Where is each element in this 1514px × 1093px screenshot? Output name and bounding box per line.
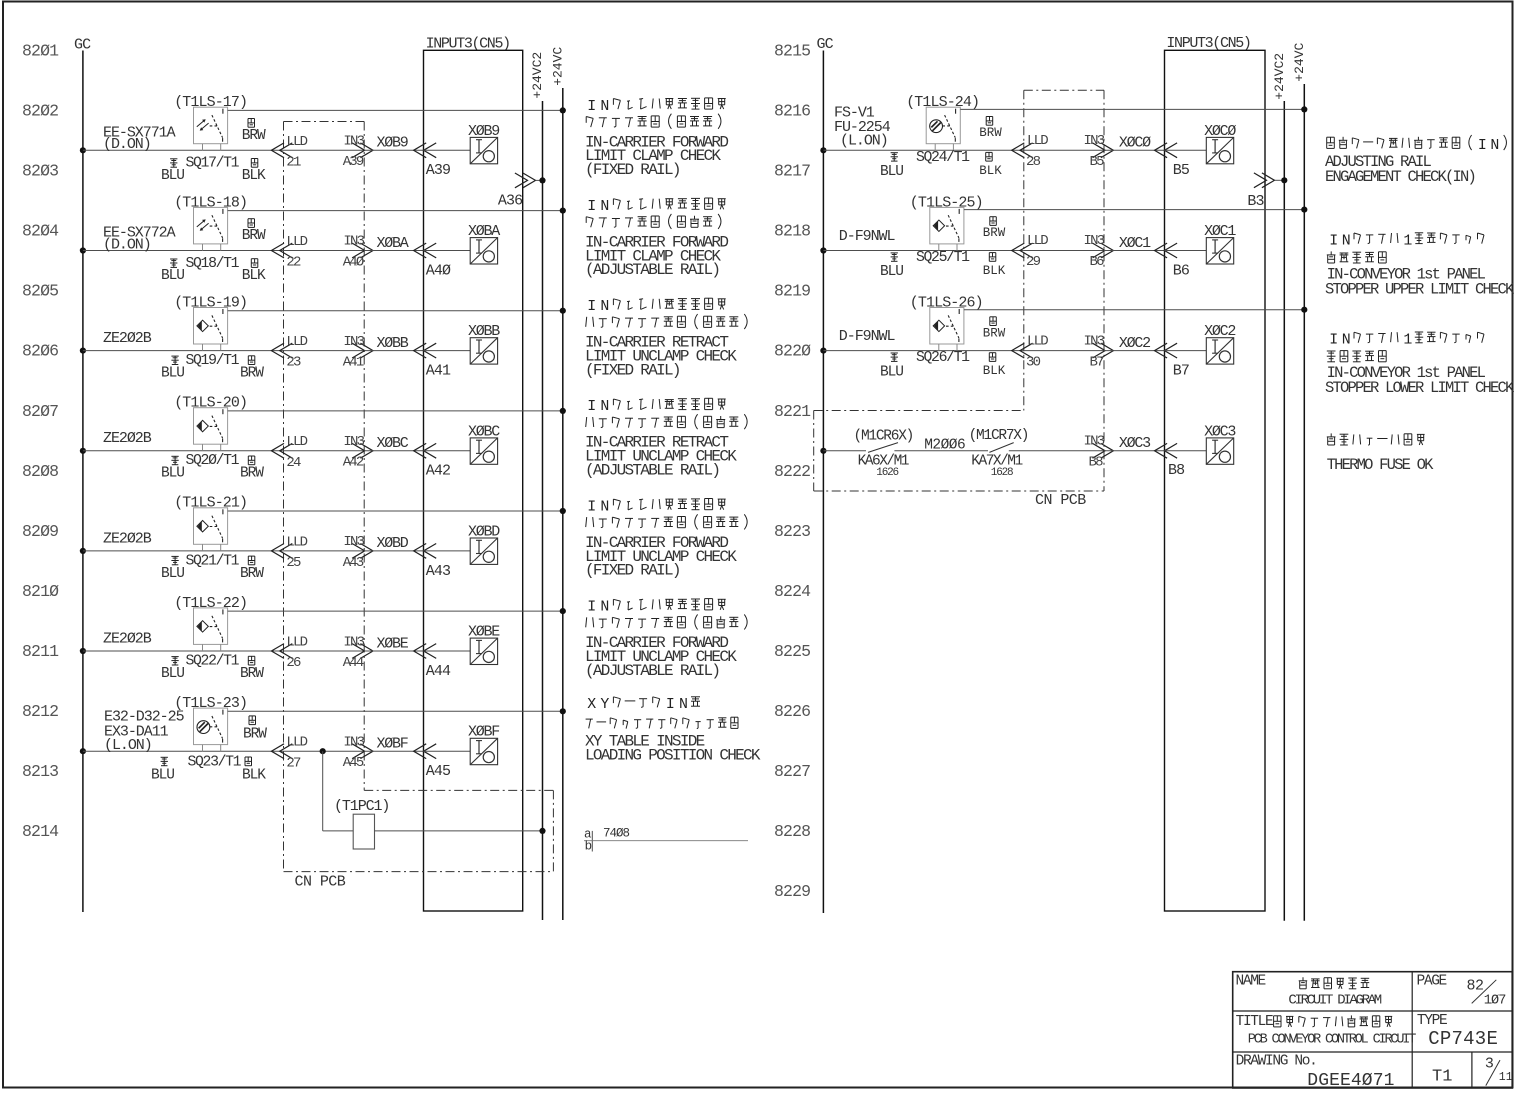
- wire GC right bus: [822, 51, 824, 914]
- svg-text:24: 24: [286, 455, 301, 471]
- svg-text:BRW: BRW: [243, 726, 267, 742]
- pin B7 into INPUT3 right: [1155, 343, 1168, 358]
- wire sensor top to +24VC right row 1: [960, 108, 1304, 110]
- svg-text:N: N: [600, 600, 609, 616]
- node junction branch T1PC1: [320, 748, 326, 754]
- svg-text:BRW: BRW: [979, 126, 1002, 140]
- photocoupler T1PC1: [353, 814, 374, 849]
- svg-text:8226: 8226: [774, 702, 810, 721]
- svg-text:(T1LS-22): (T1LS-22): [174, 595, 247, 612]
- svg-text:8211: 8211: [22, 642, 59, 661]
- pin IN3 connector arrow: [360, 644, 373, 659]
- svg-text:SQ25/T1: SQ25/T1: [916, 250, 970, 266]
- svg-text:(T1LS-17): (T1LS-17): [174, 94, 247, 111]
- svg-text:XØBF: XØBF: [377, 736, 408, 753]
- pin LLD 28 right connector: [1012, 143, 1025, 158]
- wire to I/O symbol: [424, 650, 471, 652]
- wire net XØCØ: [1104, 149, 1165, 151]
- svg-text:A4Ø: A4Ø: [426, 262, 451, 279]
- svg-text:BLK: BLK: [242, 168, 266, 184]
- svg-text:82Ø5: 82Ø5: [22, 282, 58, 301]
- wire sensor top to +24VC row 2: [228, 210, 563, 212]
- wire rung row 2 left: [83, 250, 284, 252]
- svg-text:SQ18/T1: SQ18/T1: [186, 256, 240, 272]
- svg-text:+24VC: +24VC: [1292, 42, 1307, 81]
- svg-text:XØBC: XØBC: [377, 435, 409, 452]
- svg-text:BLU: BLU: [161, 466, 184, 482]
- svg-text:8224: 8224: [774, 582, 811, 601]
- svg-text:B8: B8: [1168, 462, 1185, 479]
- svg-text:(L.ON): (L.ON): [104, 737, 152, 754]
- svg-text:SQ24/T1: SQ24/T1: [916, 150, 970, 166]
- svg-text:BLU: BLU: [161, 666, 184, 682]
- svg-text:ZE2Ø2B: ZE2Ø2B: [103, 631, 152, 648]
- power rail +24VC right: [1303, 84, 1305, 921]
- sensor T1LS-23: [194, 708, 228, 745]
- svg-text:(T1LS-25): (T1LS-25): [910, 194, 983, 211]
- label wire colors right: [989, 217, 991, 226]
- svg-text:I: I: [666, 697, 675, 713]
- wire rung right row 3: [823, 350, 1023, 352]
- svg-text:ENGAGEMENT CHECK(IN): ENGAGEMENT CHECK(IN): [1325, 168, 1475, 186]
- svg-text:LLD: LLD: [286, 334, 307, 350]
- svg-text:N: N: [600, 399, 609, 415]
- wire to I/O symbol: [424, 450, 471, 452]
- svg-text:XØBA: XØBA: [377, 235, 409, 252]
- label wire color blue: [170, 158, 177, 160]
- svg-text:+24VC: +24VC: [550, 47, 565, 86]
- svg-text:82Ø3: 82Ø3: [22, 162, 58, 181]
- svg-text:A44: A44: [426, 663, 451, 680]
- svg-text:+24VC2: +24VC2: [530, 52, 545, 99]
- wire to I/O symbol: [424, 250, 471, 252]
- svg-text:SQ23/T1: SQ23/T1: [188, 755, 242, 771]
- power rail +24VC2 right: [1283, 101, 1285, 921]
- svg-text:(FIXED RAIL): (FIXED RAIL): [585, 562, 680, 580]
- wire sensor top to +24VC row 4: [228, 410, 563, 412]
- svg-text:CN PCB: CN PCB: [1035, 492, 1086, 509]
- svg-text:A36: A36: [498, 193, 523, 210]
- relay contact KA7X/M1 (M1CR7X): [989, 443, 1013, 453]
- svg-text:82Ø7: 82Ø7: [22, 402, 58, 421]
- pin arrow into INPUT3: [414, 644, 427, 659]
- svg-text:(T1LS-18): (T1LS-18): [174, 194, 247, 211]
- svg-text:1628: 1628: [991, 467, 1013, 479]
- wire rung right row 4 segment 1: [823, 450, 866, 452]
- label description right row 1: [1326, 137, 1328, 148]
- svg-text:IN3: IN3: [1084, 233, 1105, 249]
- svg-text:A4Ø: A4Ø: [343, 254, 364, 270]
- svg-text:BRW: BRW: [240, 466, 264, 482]
- svg-text:BRW: BRW: [240, 566, 264, 582]
- svg-text:8215: 8215: [774, 42, 810, 61]
- svg-text:BLU: BLU: [880, 264, 903, 280]
- svg-text:BLK: BLK: [242, 768, 266, 784]
- pin arrow into INPUT3: [414, 443, 427, 458]
- title block table: [1233, 972, 1513, 1088]
- svg-text:A44: A44: [343, 655, 364, 671]
- connector INPUT3(CN5) left box: [424, 50, 523, 911]
- svg-text:THERMO FUSE OK: THERMO FUSE OK: [1327, 456, 1435, 474]
- wire net XØC3: [1104, 450, 1165, 452]
- node junction GC right row 3: [820, 348, 826, 354]
- svg-text:26: 26: [286, 655, 301, 671]
- label wire color black BLK: [250, 259, 252, 268]
- label wire color brown BRW: [248, 716, 250, 725]
- svg-text:A39: A39: [426, 162, 450, 179]
- pin jump B3 to +24VC2 right: [1262, 173, 1275, 188]
- svg-text:IN3: IN3: [343, 234, 364, 250]
- pin IN3 connector arrow: [360, 143, 373, 158]
- svg-text:X: X: [587, 697, 596, 713]
- pin IN3 B5 right connector: [1101, 143, 1114, 158]
- svg-text:(L.ON): (L.ON): [840, 133, 888, 150]
- svg-text:GC: GC: [817, 36, 834, 53]
- svg-text:8225: 8225: [774, 642, 810, 661]
- wire net XØBB: [364, 350, 423, 352]
- svg-text:A43: A43: [343, 555, 364, 571]
- label wire colors right: [989, 317, 991, 326]
- svg-text:IN3: IN3: [343, 334, 364, 350]
- svg-text:LLD: LLD: [1027, 333, 1048, 349]
- svg-text:D-F9NWL: D-F9NWL: [839, 228, 896, 245]
- wire rung row 1 left: [83, 149, 284, 151]
- svg-text:IN3: IN3: [1084, 333, 1105, 349]
- svg-text:BRW: BRW: [240, 366, 264, 382]
- svg-text:ZE2Ø2B: ZE2Ø2B: [103, 330, 152, 347]
- svg-text:A42: A42: [426, 463, 450, 480]
- wire GC left bus: [82, 51, 84, 913]
- svg-text:XØC2: XØC2: [1119, 335, 1150, 352]
- svg-text:B5: B5: [1173, 162, 1190, 179]
- svg-text:BRW: BRW: [983, 326, 1006, 340]
- svg-text:BLU: BLU: [161, 168, 184, 184]
- svg-text:8222: 8222: [774, 462, 810, 481]
- node junction +24VC row 6: [560, 608, 566, 614]
- svg-text:1: 1: [1403, 233, 1412, 249]
- pin IN3 B8 right connector row 4: [1101, 443, 1114, 458]
- svg-text:A41: A41: [343, 355, 364, 371]
- sensor T1LS-26: [930, 308, 964, 345]
- svg-text:82Ø8: 82Ø8: [22, 462, 58, 481]
- label wire color brown: [247, 456, 249, 465]
- svg-text:8218: 8218: [774, 222, 810, 241]
- sensor T1LS-18: [194, 207, 228, 244]
- svg-text:11: 11: [1499, 1071, 1513, 1084]
- pin arrow into INPUT3: [414, 143, 427, 158]
- wire to I/O symbol: [424, 550, 471, 552]
- svg-text:B6: B6: [1090, 254, 1105, 270]
- svg-text:B5: B5: [1090, 154, 1105, 170]
- node junction GC rung row 7: [80, 748, 86, 754]
- svg-text:8219: 8219: [774, 282, 810, 301]
- wire T1PC1 to +24VC2: [375, 830, 543, 832]
- node junction +24VC row 3: [560, 308, 566, 314]
- svg-text:1626: 1626: [876, 467, 898, 479]
- wire net XØB9: [364, 149, 423, 151]
- svg-text:CN PCB: CN PCB: [295, 874, 346, 891]
- svg-text:(ADJUSTABLE RAIL): (ADJUSTABLE RAIL): [585, 462, 719, 480]
- label wire color brown BRW: [247, 119, 249, 128]
- label wire color black BLK: [244, 757, 246, 766]
- label wire color blue: [171, 656, 178, 658]
- relay contact KA6X/M1 (M1CR6X): [868, 443, 898, 453]
- svg-text:8228: 8228: [774, 822, 810, 841]
- svg-text:NAME: NAME: [1236, 974, 1266, 990]
- svg-text:(T1LS-19): (T1LS-19): [174, 294, 247, 311]
- svg-text:XØBD: XØBD: [377, 535, 409, 552]
- pin jump A36 to +24VC2: [523, 173, 536, 188]
- svg-text:ZE2Ø2B: ZE2Ø2B: [103, 430, 152, 447]
- svg-text:Y: Y: [600, 697, 609, 713]
- pin IN3 connector arrow: [360, 443, 373, 458]
- pin arrow into INPUT3: [414, 343, 427, 358]
- svg-text:DGEE4Ø71: DGEE4Ø71: [1307, 1071, 1394, 1091]
- wire net XØBA: [364, 250, 423, 252]
- svg-text:N: N: [1490, 138, 1499, 154]
- svg-text:8229: 8229: [774, 882, 810, 901]
- pin B8 into INPUT3 right: [1155, 443, 1168, 458]
- svg-text:8214: 8214: [22, 822, 59, 841]
- svg-text:IN3: IN3: [1084, 133, 1105, 149]
- svg-text:(FIXED RAIL): (FIXED RAIL): [585, 161, 680, 179]
- node junction GC rung row 3: [80, 348, 86, 354]
- svg-text:DRAWING No.: DRAWING No.: [1236, 1054, 1317, 1070]
- power rail +24VC2 left: [542, 101, 544, 920]
- wire sensor top to +24VC right row 3: [964, 309, 1304, 311]
- svg-text:N: N: [600, 199, 609, 215]
- sensor T1LS-17: [194, 107, 228, 144]
- svg-text:SQ22/T1: SQ22/T1: [186, 654, 240, 670]
- label wire color brown: [247, 656, 249, 665]
- wire branch down to T1PC1: [322, 751, 324, 831]
- svg-text:LLD: LLD: [286, 635, 307, 651]
- svg-text:(ADJUSTABLE RAIL): (ADJUSTABLE RAIL): [585, 261, 719, 279]
- svg-text:XØBE: XØBE: [377, 635, 409, 652]
- svg-text:22: 22: [286, 255, 301, 271]
- svg-text:74Ø8: 74Ø8: [603, 827, 630, 841]
- pin arrow into INPUT3: [414, 243, 427, 258]
- wire sensor top to +24VC row 1: [228, 109, 563, 111]
- svg-text:BLU: BLU: [151, 768, 174, 784]
- svg-text:82: 82: [1467, 977, 1484, 994]
- svg-text:IN3: IN3: [343, 735, 364, 751]
- svg-text:LLD: LLD: [1027, 233, 1048, 249]
- svg-text:I: I: [1329, 333, 1338, 349]
- label wire color blue: [171, 455, 178, 457]
- wire rung right row 2: [823, 250, 1023, 252]
- wire net XØC2: [1104, 350, 1165, 352]
- wire rung right row 4 segment 2: [894, 450, 988, 452]
- svg-text:LLD: LLD: [286, 434, 307, 450]
- svg-text:N: N: [679, 697, 688, 713]
- wire net XØBC: [364, 450, 423, 452]
- svg-text:BLU: BLU: [880, 364, 903, 380]
- svg-text:(D.ON): (D.ON): [103, 236, 151, 253]
- node junction +24VC row 4: [560, 408, 566, 414]
- wire rung right row 4 segment 3: [1009, 450, 1104, 452]
- sensor T1LS-20: [194, 408, 228, 445]
- svg-text:B8: B8: [1089, 454, 1104, 470]
- svg-text:A41: A41: [426, 363, 451, 380]
- pin LLD connector arrow: [271, 343, 284, 358]
- svg-text:(T1LS-26): (T1LS-26): [910, 294, 983, 311]
- svg-text:8227: 8227: [774, 762, 810, 781]
- svg-text:A45: A45: [343, 755, 364, 771]
- svg-text:BLK: BLK: [979, 164, 1002, 178]
- svg-text:21: 21: [286, 154, 301, 170]
- svg-text:(T1LS-21): (T1LS-21): [174, 495, 247, 512]
- label wire color blue: [171, 355, 178, 357]
- svg-text:BLK: BLK: [983, 264, 1006, 278]
- svg-text:82Ø9: 82Ø9: [22, 522, 58, 541]
- pin LLD connector arrow: [271, 544, 284, 559]
- pin IN3 connector arrow: [360, 744, 373, 759]
- svg-text:N: N: [1342, 333, 1351, 349]
- svg-text:SQ19/T1: SQ19/T1: [186, 353, 240, 369]
- svg-text:XØC1: XØC1: [1119, 235, 1151, 252]
- wire net XØC1: [1104, 250, 1165, 252]
- node junction GC right row 4: [820, 448, 826, 454]
- svg-text:STOPPER LOWER LIMIT CHECK: STOPPER LOWER LIMIT CHECK: [1325, 379, 1514, 397]
- label wire color blue: [161, 756, 168, 758]
- svg-text:1Ø7: 1Ø7: [1484, 994, 1507, 1009]
- node junction +24VC row 2: [560, 208, 566, 214]
- svg-text:LLD: LLD: [286, 735, 307, 751]
- wire net XØBD: [364, 550, 423, 552]
- svg-text:N: N: [600, 299, 609, 315]
- svg-text:SQ2Ø/T1: SQ2Ø/T1: [186, 453, 240, 469]
- label wire color blue: [170, 258, 177, 260]
- svg-text:(FIXED RAIL): (FIXED RAIL): [585, 361, 680, 379]
- sensor T1LS-22: [194, 608, 228, 645]
- svg-text:23: 23: [286, 355, 301, 371]
- svg-text:82Ø1: 82Ø1: [22, 42, 59, 61]
- wire to I/O symbol: [424, 350, 471, 352]
- sensor T1LS-19: [194, 308, 228, 345]
- svg-text:+24VC2: +24VC2: [1272, 53, 1287, 100]
- svg-text:XØB9: XØB9: [377, 135, 408, 152]
- svg-text:(D.ON): (D.ON): [103, 136, 151, 153]
- svg-text:BRW: BRW: [242, 128, 266, 144]
- svg-text:82Ø6: 82Ø6: [22, 342, 58, 361]
- node junction +24VC row 5: [560, 508, 566, 514]
- svg-text:(T1LS-23): (T1LS-23): [174, 695, 247, 712]
- pin IN3 B7 right connector: [1101, 343, 1114, 358]
- label wire color brown: [247, 556, 249, 565]
- svg-text:BLK: BLK: [242, 268, 266, 284]
- wire rung row 7 left: [83, 750, 284, 752]
- svg-text:B7: B7: [1173, 363, 1189, 380]
- svg-text:T1: T1: [1432, 1068, 1452, 1087]
- wire rung row 6 left: [83, 650, 284, 652]
- wire net XØBE: [364, 650, 423, 652]
- wire sensor top to +24VC row 7: [228, 710, 563, 712]
- svg-text:M2ØØ6: M2ØØ6: [924, 438, 965, 454]
- svg-text:CP743E: CP743E: [1428, 1028, 1498, 1050]
- wire sensor top to +24VC right row 2: [964, 209, 1304, 211]
- svg-text:(T1PC1): (T1PC1): [334, 798, 389, 815]
- wire rung right row 1: [823, 149, 1023, 151]
- svg-text:(T1LS-20): (T1LS-20): [174, 395, 247, 412]
- svg-text:SQ21/T1: SQ21/T1: [186, 553, 240, 569]
- svg-text:A42: A42: [343, 455, 364, 471]
- pin LLD connector arrow: [271, 243, 284, 258]
- svg-text:I: I: [1478, 138, 1487, 154]
- svg-text:N: N: [600, 499, 609, 515]
- svg-text:I: I: [587, 399, 596, 415]
- svg-text:I: I: [587, 499, 596, 515]
- node junction +24VC row 7: [560, 708, 566, 714]
- CN PCB boundary right (dash-dot): [1024, 89, 1104, 91]
- svg-text:29: 29: [1026, 254, 1041, 270]
- node junction GC rung 8202 row 1: [80, 147, 86, 153]
- pin LLD connector arrow: [271, 443, 284, 458]
- svg-text:A43: A43: [426, 563, 451, 580]
- wire rung row 3 left: [83, 350, 284, 352]
- pin IN3 connector arrow: [360, 243, 373, 258]
- node junction +24VC right row 3: [1301, 307, 1307, 313]
- node junction GC rung row 4: [80, 448, 86, 454]
- node junction +24VC2 T1PC1: [539, 828, 545, 834]
- node junction +24VC right row 2: [1301, 207, 1307, 213]
- svg-text:BRW: BRW: [983, 226, 1006, 240]
- wire to I/O symbol: [424, 149, 471, 151]
- svg-text:I: I: [587, 199, 596, 215]
- sensor T1LS-24: [926, 107, 960, 144]
- svg-text:822Ø: 822Ø: [774, 342, 811, 361]
- svg-text:B7: B7: [1090, 354, 1105, 370]
- svg-text:(ADJUSTABLE RAIL): (ADJUSTABLE RAIL): [585, 662, 719, 680]
- svg-text:B3: B3: [1247, 193, 1264, 210]
- svg-text:3: 3: [1485, 1056, 1494, 1073]
- svg-text:CIRCUIT DIAGRAM: CIRCUIT DIAGRAM: [1288, 992, 1381, 1008]
- svg-text:821Ø: 821Ø: [22, 582, 59, 601]
- svg-text:b: b: [585, 840, 593, 854]
- svg-text:PCB CONVEYOR CONTROL CIRCUIT: PCB CONVEYOR CONTROL CIRCUIT: [1248, 1032, 1416, 1047]
- svg-text:BLU: BLU: [161, 366, 184, 382]
- svg-text:TITLE: TITLE: [1236, 1014, 1273, 1030]
- svg-text:D-F9NWL: D-F9NWL: [839, 328, 896, 345]
- pin IN3 connector arrow: [360, 343, 373, 358]
- svg-text:I: I: [1329, 233, 1338, 249]
- svg-text:(M1CR6X): (M1CR6X): [854, 429, 914, 445]
- svg-text:PAGE: PAGE: [1417, 974, 1447, 990]
- label wire colors right: [985, 117, 987, 126]
- svg-text:(T1LS-24): (T1LS-24): [906, 94, 979, 111]
- pin B5 into INPUT3 right: [1155, 143, 1168, 158]
- svg-text:(M1CR7X): (M1CR7X): [969, 428, 1029, 444]
- svg-text:ZE2Ø2B: ZE2Ø2B: [103, 530, 152, 547]
- svg-text:8223: 8223: [774, 522, 810, 541]
- connector INPUT3(CN5) right box: [1165, 50, 1266, 911]
- svg-text:IN3: IN3: [343, 534, 364, 550]
- sensor T1LS-21: [194, 508, 228, 545]
- node junction GC rung row 6: [80, 648, 86, 654]
- pin IN3 B6 right connector: [1101, 243, 1114, 258]
- svg-text:IN3: IN3: [343, 634, 364, 650]
- label wire color brown BRW: [247, 219, 249, 228]
- svg-text:BLK: BLK: [983, 364, 1006, 378]
- pin arrow into INPUT3: [414, 744, 427, 759]
- svg-text:IN3: IN3: [343, 134, 364, 150]
- svg-text:B6: B6: [1173, 262, 1190, 279]
- svg-text:XØBB: XØBB: [377, 335, 409, 352]
- node junction GC right row 1: [820, 147, 826, 153]
- svg-text:8213: 8213: [22, 762, 58, 781]
- wire sensor top to +24VC row 6: [228, 610, 563, 612]
- pin LLD connector arrow: [271, 744, 284, 759]
